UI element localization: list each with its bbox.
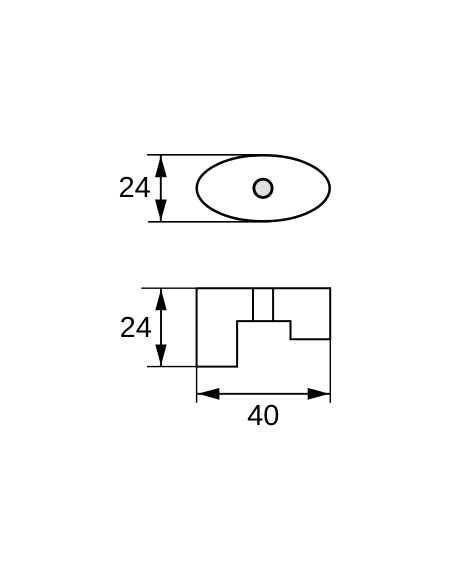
arrowhead up (side view) (155, 289, 166, 310)
svg-text:24: 24 (120, 312, 152, 344)
extension line bottom-left (24 dim) (147, 366, 197, 368)
arrowhead right (308, 388, 330, 400)
extension line top (24 dim) (147, 154, 264, 156)
center mounting hole (254, 179, 272, 197)
extension line right (40 dim) (329, 339, 331, 403)
dimension line (40, horizontal) (197, 393, 331, 395)
arrowhead down (side view) (155, 345, 166, 366)
extension line left (40 dim) (196, 367, 198, 403)
slot right line (272, 288, 274, 321)
stepped profile outline (197, 288, 331, 366)
dimension line (24, vertical) (160, 155, 162, 222)
extension line top-left (24 dim) (141, 287, 196, 289)
extension line bottom (24 dim) (148, 221, 269, 223)
oval body outline (197, 155, 330, 221)
svg-text:40: 40 (247, 400, 279, 432)
arrowhead up (155, 156, 167, 177)
slot left line (252, 288, 254, 321)
svg-text:24: 24 (118, 172, 150, 204)
arrowhead left (198, 388, 220, 400)
dimension line (24, vertical) (160, 288, 162, 366)
arrowhead down (155, 200, 167, 221)
